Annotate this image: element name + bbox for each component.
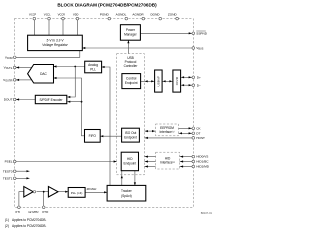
control endpoint block	[122, 74, 141, 89]
svg-text:Endpoint: Endpoint	[125, 81, 138, 85]
wire TEST0	[15, 170, 30, 172]
HID interface dashed block	[156, 152, 180, 169]
wire USB IF to XCVR	[162, 80, 173, 82]
svg-text:DGND: DGND	[150, 12, 160, 16]
wire clock riser to SPDIF	[67, 67, 75, 98]
svg-text:HID1/BC: HID1/BC	[196, 160, 209, 164]
wire VBUS to regulator	[82, 47, 193, 49]
svg-text:ISO Out: ISO Out	[125, 131, 137, 135]
wire HID0 pin	[180, 156, 194, 158]
wire HID1 pin	[180, 161, 194, 163]
svg-text:S/PDIF Encoder: S/PDIF Encoder	[39, 98, 63, 102]
wire XCVR to D-	[181, 84, 194, 86]
pin DOUT	[4, 98, 16, 102]
svg-text:(2)Applies to PCM2706DB.: (2)Applies to PCM2706DB.	[5, 224, 46, 228]
wire analog PLL to DAC	[54, 66, 85, 68]
SPDIF encoder block	[35, 95, 67, 103]
svg-text:Controller: Controller	[124, 64, 139, 68]
svg-text:(1)Applies to PCM2704DB.: (1)Applies to PCM2704DB.	[5, 218, 46, 222]
tracker SpAct block	[107, 185, 146, 201]
svg-text:VCCR: VCCR	[58, 12, 66, 16]
svg-text:VOUTR: VOUTR	[3, 78, 13, 82]
wire data branch to SPDIF	[67, 101, 81, 103]
ground pin AGNDR	[132, 12, 144, 20]
wire VCOM	[15, 51, 80, 58]
pin VBUS	[192, 46, 204, 50]
svg-text:DAC: DAC	[40, 72, 47, 76]
ground pin AGNDL	[116, 12, 128, 20]
svg-text:AGNDL: AGNDL	[116, 12, 127, 16]
wire tracker to HID endpoint up	[121, 171, 123, 186]
pin XTO	[42, 206, 49, 214]
svg-text:VCCP: VCCP	[29, 12, 37, 16]
svg-text:Interface⁽²⁾: Interface⁽²⁾	[160, 160, 175, 164]
svg-text:HID0/VS: HID0/VS	[196, 155, 208, 159]
wire HID interface line 2	[144, 166, 155, 168]
wire HOST	[144, 137, 193, 139]
svg-text:USB I/F: USB I/F	[156, 76, 160, 87]
svg-text:XTO: XTO	[42, 210, 49, 214]
wire EEPROM DT	[179, 132, 194, 134]
wire SPDIF encoder to DOUT	[16, 99, 35, 101]
DAC block	[28, 65, 54, 84]
wire usb controller to power manager	[127, 40, 129, 53]
svg-text:TEST1: TEST1	[3, 176, 13, 180]
svg-text:D+: D+	[197, 75, 201, 79]
svg-text:12 MHz: 12 MHz	[28, 210, 39, 214]
pin VCCL	[44, 12, 52, 20]
wire VCCP riser	[33, 19, 35, 36]
USB protocol controller dashed block	[117, 54, 145, 175]
svg-text:PGND: PGND	[100, 12, 110, 16]
ISO out endpoint block	[122, 128, 140, 142]
power manager block	[120, 25, 140, 41]
svg-text:TEST0: TEST0	[3, 169, 13, 173]
svg-text:Manager: Manager	[124, 33, 138, 37]
svg-text:DOUT: DOUT	[4, 98, 13, 102]
pin VOUTL	[4, 66, 16, 70]
wire data bus FIFO to DAC	[54, 78, 85, 136]
svg-text:FIFO: FIFO	[89, 134, 97, 138]
wire VCCR riser	[62, 19, 64, 36]
svg-text:5-V to 3.3-V: 5-V to 3.3-V	[46, 38, 64, 42]
wire HID interface line 0	[144, 156, 155, 158]
svg-text:Tracker: Tracker	[121, 189, 133, 193]
svg-text:HID2/MD: HID2/MD	[196, 165, 209, 169]
wire ISO out endpoint to FIFO	[100, 135, 121, 137]
oscillator inverter 1	[24, 187, 33, 198]
svg-text:AGNDR: AGNDR	[132, 12, 144, 16]
FIFO block	[85, 130, 101, 143]
USB I/F block	[155, 70, 163, 92]
analog PLL block	[85, 61, 102, 73]
svg-text:XCVR: XCVR	[175, 76, 179, 85]
wire VDD riser	[76, 19, 78, 36]
svg-text:XTI: XTI	[15, 210, 20, 214]
pin TEST0	[3, 169, 16, 173]
pin HID2	[192, 165, 210, 169]
svg-text:ZGND: ZGND	[168, 12, 178, 16]
junction	[81, 101, 83, 103]
EEPROM interface dashed block	[156, 124, 179, 136]
ground pin ZGND	[168, 12, 178, 20]
wire TEST1	[15, 177, 30, 179]
wire HID2 pin	[180, 166, 194, 168]
wire XTI to oscillator	[19, 192, 24, 208]
svg-text:VBUS: VBUS	[196, 46, 203, 50]
wire DAC to VOUTR	[16, 79, 31, 81]
pin XTI	[15, 206, 20, 214]
svg-text:Interface⁽¹⁾: Interface⁽¹⁾	[159, 130, 174, 134]
pin VCCR	[58, 12, 66, 20]
PLL x4 block	[68, 188, 85, 198]
wire VCCL riser	[48, 19, 50, 36]
wire HID interface line 1	[144, 161, 155, 163]
svg-text:Control: Control	[126, 77, 137, 81]
svg-text:BLOCK DIAGRAM (PCM2704DB/PCM27: BLOCK DIAGRAM (PCM2704DB/PCM2706DB)	[57, 3, 157, 8]
wire PSEL	[15, 161, 117, 163]
svg-text:Endpoint: Endpoint	[124, 135, 137, 139]
svg-text:D−: D−	[197, 83, 201, 87]
pin HID0	[192, 155, 208, 159]
svg-text:48 MHz: 48 MHz	[87, 187, 98, 191]
svg-text:HID: HID	[127, 157, 133, 161]
svg-text:VDD: VDD	[73, 12, 79, 16]
svg-text:HOST: HOST	[196, 136, 205, 140]
pin VCCP	[29, 12, 37, 20]
pin VCOM	[5, 55, 16, 59]
ground pin DGND	[150, 12, 161, 20]
pin DT	[192, 131, 201, 135]
svg-text:VCCL: VCCL	[44, 12, 52, 16]
wire control endpoint to USB IF	[141, 80, 155, 82]
oscillator buffer 2	[48, 187, 58, 198]
pin SSPND (active low)	[192, 31, 208, 35]
wire EEPROM CK	[179, 127, 194, 129]
ground pin PGND	[100, 12, 111, 20]
HID endpoint block	[121, 152, 138, 171]
wire USB controller to EEPROM interface	[144, 130, 155, 132]
pin TEST1	[3, 176, 16, 180]
wire 48MHz PLL to tracker	[85, 191, 107, 193]
pin PSEL	[5, 160, 16, 164]
svg-text:Voltage Regulator: Voltage Regulator	[42, 43, 68, 47]
svg-text:PLL: PLL	[90, 67, 96, 71]
chip dashed boundary	[14, 19, 193, 208]
wire buffer to PLL x4	[58, 191, 68, 193]
wire tracker to analog PLL	[102, 67, 110, 185]
svg-text:PLL (×4): PLL (×4)	[71, 191, 82, 195]
svg-text:Analog: Analog	[88, 63, 98, 67]
pin D-	[192, 83, 201, 87]
wire XCVR to D+	[181, 76, 194, 78]
pin D+	[192, 75, 201, 79]
svg-text:SSPND: SSPND	[196, 31, 207, 35]
svg-text:VOUTL: VOUTL	[4, 66, 13, 70]
junction	[74, 66, 76, 68]
svg-text:Endpoint: Endpoint	[124, 161, 137, 165]
svg-text:VCOM: VCOM	[5, 55, 13, 59]
XCVR block	[173, 70, 181, 92]
svg-text:Power: Power	[126, 28, 136, 32]
pin CK	[192, 126, 202, 130]
wire HID endpoint to tracker down	[134, 171, 136, 186]
svg-text:PSEL: PSEL	[5, 160, 13, 164]
svg-text:B0107-01: B0107-01	[201, 211, 213, 215]
pin HOST	[192, 136, 205, 140]
pin HID1	[192, 160, 209, 164]
voltage regulator block	[28, 35, 83, 50]
junction	[43, 191, 45, 193]
svg-text:(SpAct): (SpAct)	[121, 194, 132, 198]
wire oscillator to XTO	[37, 191, 49, 193]
svg-text:DT: DT	[196, 131, 200, 135]
pin VDD	[73, 12, 79, 20]
wire DAC to VOUTL	[16, 67, 32, 69]
wire power manager to SSPND	[140, 32, 193, 34]
pin VOUTR	[3, 78, 16, 82]
